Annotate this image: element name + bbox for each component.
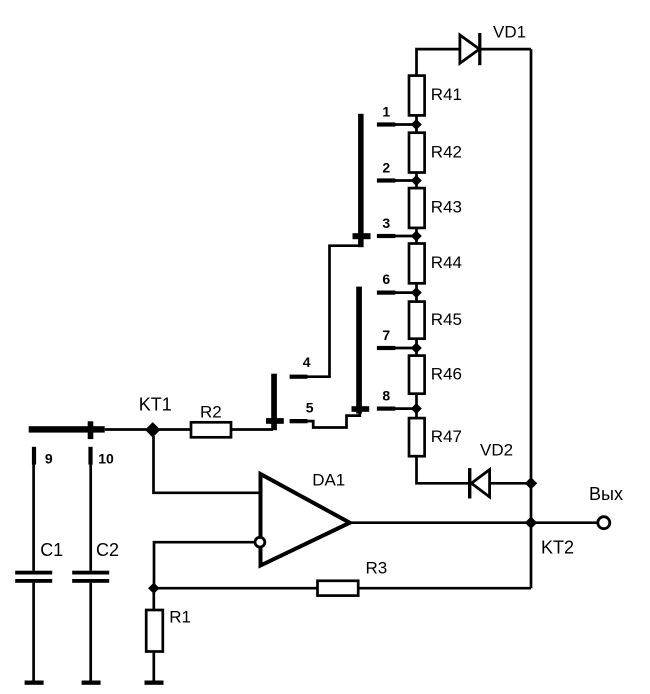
input wiper bar (horizontal, contacts 9/10) <box>29 421 105 439</box>
svg-text:R43: R43 <box>431 198 462 217</box>
wire R41 top to VD1 anode <box>417 49 460 76</box>
svg-text:6: 6 <box>382 271 390 287</box>
svg-text:R44: R44 <box>431 253 462 272</box>
svg-text:C1: C1 <box>40 540 63 560</box>
node R1/R3 junction dot <box>149 583 159 593</box>
svg-text:VD1: VD1 <box>493 23 526 42</box>
wire inverting input <box>154 542 254 588</box>
wire R2 to wiper bar C <box>231 428 273 431</box>
wire contact 4 to wiper bar A <box>307 246 362 377</box>
contact 9 stub <box>32 447 36 465</box>
node KT2 junction dot <box>526 517 537 528</box>
svg-text:8: 8 <box>382 387 390 403</box>
svg-text:9: 9 <box>45 450 53 466</box>
svg-text:R45: R45 <box>431 310 462 329</box>
switch wiper bar B (contacts 6-8) <box>352 287 370 414</box>
svg-text:KT1: KT1 <box>139 395 172 415</box>
wire VD1 cathode to right rail <box>481 48 531 51</box>
node 2 junction dot <box>412 176 422 186</box>
resistor R2 <box>191 422 231 437</box>
svg-text:R2: R2 <box>200 402 222 421</box>
node KT1 dot <box>146 423 160 437</box>
svg-text:2: 2 <box>382 159 390 175</box>
svg-text:KT2: KT2 <box>541 538 574 558</box>
node 7 junction dot <box>412 343 422 353</box>
diode VD1 <box>460 33 482 65</box>
contact 3 stub <box>377 234 413 238</box>
wire KT1 to op-amp noninverting input <box>154 436 261 493</box>
resistor R1 <box>145 588 164 685</box>
wire R47 to VD2 anode <box>417 456 469 483</box>
svg-text:C2: C2 <box>96 540 119 560</box>
svg-text:7: 7 <box>382 327 390 343</box>
resistor R42 <box>409 133 425 173</box>
contact 4 stub <box>290 375 308 379</box>
resistor R43 <box>409 188 425 228</box>
svg-text:R47: R47 <box>431 427 462 446</box>
output terminal circle <box>598 517 610 529</box>
diode VD2 <box>468 468 531 498</box>
resistor R46 <box>409 356 425 394</box>
wire right rail <box>530 49 533 588</box>
contact 10 stub <box>88 447 92 465</box>
svg-text:VD2: VD2 <box>480 440 513 459</box>
wire op-amp output to terminal <box>350 521 597 524</box>
svg-text:3: 3 <box>382 215 390 231</box>
svg-text:DA1: DA1 <box>312 471 345 490</box>
resistor R47 <box>409 418 425 456</box>
svg-text:5: 5 <box>306 399 314 415</box>
node 6 junction dot <box>412 288 422 298</box>
svg-text:R46: R46 <box>431 364 462 383</box>
switch wiper bar A (contacts 1-3) <box>353 114 371 247</box>
wire resistor chain spine <box>415 76 418 456</box>
resistor R45 <box>409 302 425 339</box>
svg-text:R1: R1 <box>169 607 191 626</box>
wire input bar to KT1 <box>105 428 191 431</box>
svg-text:10: 10 <box>98 450 114 466</box>
node VD2/rail junction dot <box>526 478 537 489</box>
svg-text:1: 1 <box>382 103 390 119</box>
svg-text:R41: R41 <box>431 85 462 104</box>
op-amp DA1 <box>255 474 350 566</box>
contact 6 stub <box>377 291 413 295</box>
node 8 junction dot <box>412 404 422 414</box>
node 1 junction dot <box>412 120 422 130</box>
resistor R44 <box>409 244 425 284</box>
svg-text:4: 4 <box>303 354 311 370</box>
contact 5 stub <box>290 419 308 423</box>
node 3 junction dot <box>412 231 422 241</box>
contact 1 stub <box>377 122 413 126</box>
contact 2 stub <box>377 178 413 182</box>
resistor R41 <box>409 76 425 116</box>
contact 8 stub <box>377 407 413 411</box>
switch wiper bar C (contact 5, at KT1 line) <box>266 374 284 431</box>
wire contact 5 to wiper bar B <box>308 410 360 428</box>
svg-text:R3: R3 <box>366 559 388 578</box>
resistor R3 <box>154 581 531 596</box>
svg-text:R42: R42 <box>431 142 462 161</box>
capacitor C1 <box>15 464 52 685</box>
svg-text:Вых: Вых <box>589 484 623 504</box>
contact 7 stub <box>377 346 413 350</box>
capacitor C2 <box>72 464 109 685</box>
